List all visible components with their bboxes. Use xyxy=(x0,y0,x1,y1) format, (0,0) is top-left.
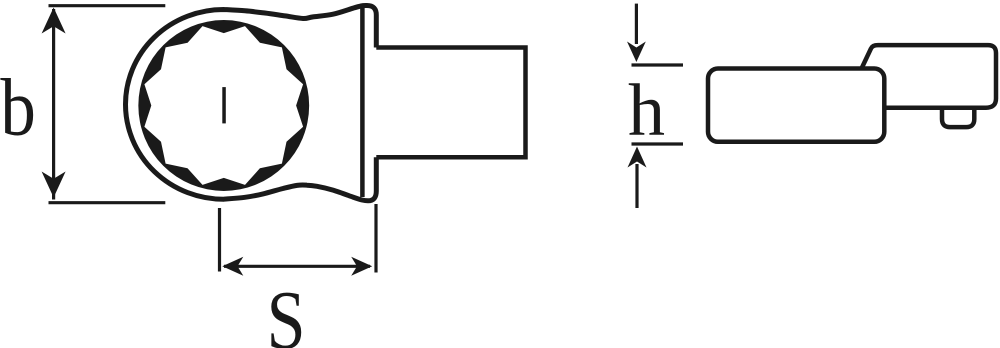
center mark xyxy=(222,87,226,123)
dimension S: right extension line xyxy=(374,204,377,273)
flange face line xyxy=(360,8,365,198)
dimension b: top arrowhead xyxy=(42,8,66,34)
dimension b: bottom arrowhead xyxy=(42,172,66,198)
dimension S: left extension line xyxy=(218,208,221,272)
dimension h: bottom extension line xyxy=(632,142,684,145)
12-point ring (black annulus) xyxy=(138,20,309,191)
dimension S: left arrowhead xyxy=(222,257,243,276)
side view: square drive tab xyxy=(942,108,974,127)
dimension h: top extension line xyxy=(632,63,684,66)
dimension b: bottom extension line xyxy=(49,201,166,204)
dimension h: up arrow shaft xyxy=(635,164,638,208)
dimension b: arrow line xyxy=(52,9,55,200)
svg-text:S: S xyxy=(267,273,306,348)
dimension h: down arrowhead xyxy=(627,42,646,63)
dimension S: arrow line xyxy=(224,265,370,268)
side view: ratchet head behind body xyxy=(862,45,996,108)
side view: insert body (rounded rect) xyxy=(708,69,884,142)
square tang (9x12 insert) xyxy=(376,48,525,158)
dimension h: up arrowhead xyxy=(628,147,647,168)
dimension h: down arrow shaft xyxy=(635,4,638,44)
wrench body outline (front view head + neck) xyxy=(126,6,377,201)
dimension b: top extension line xyxy=(49,4,166,7)
dimension S: right arrowhead xyxy=(351,257,372,276)
svg-text:b: b xyxy=(0,62,35,153)
svg-text:h: h xyxy=(628,70,665,152)
